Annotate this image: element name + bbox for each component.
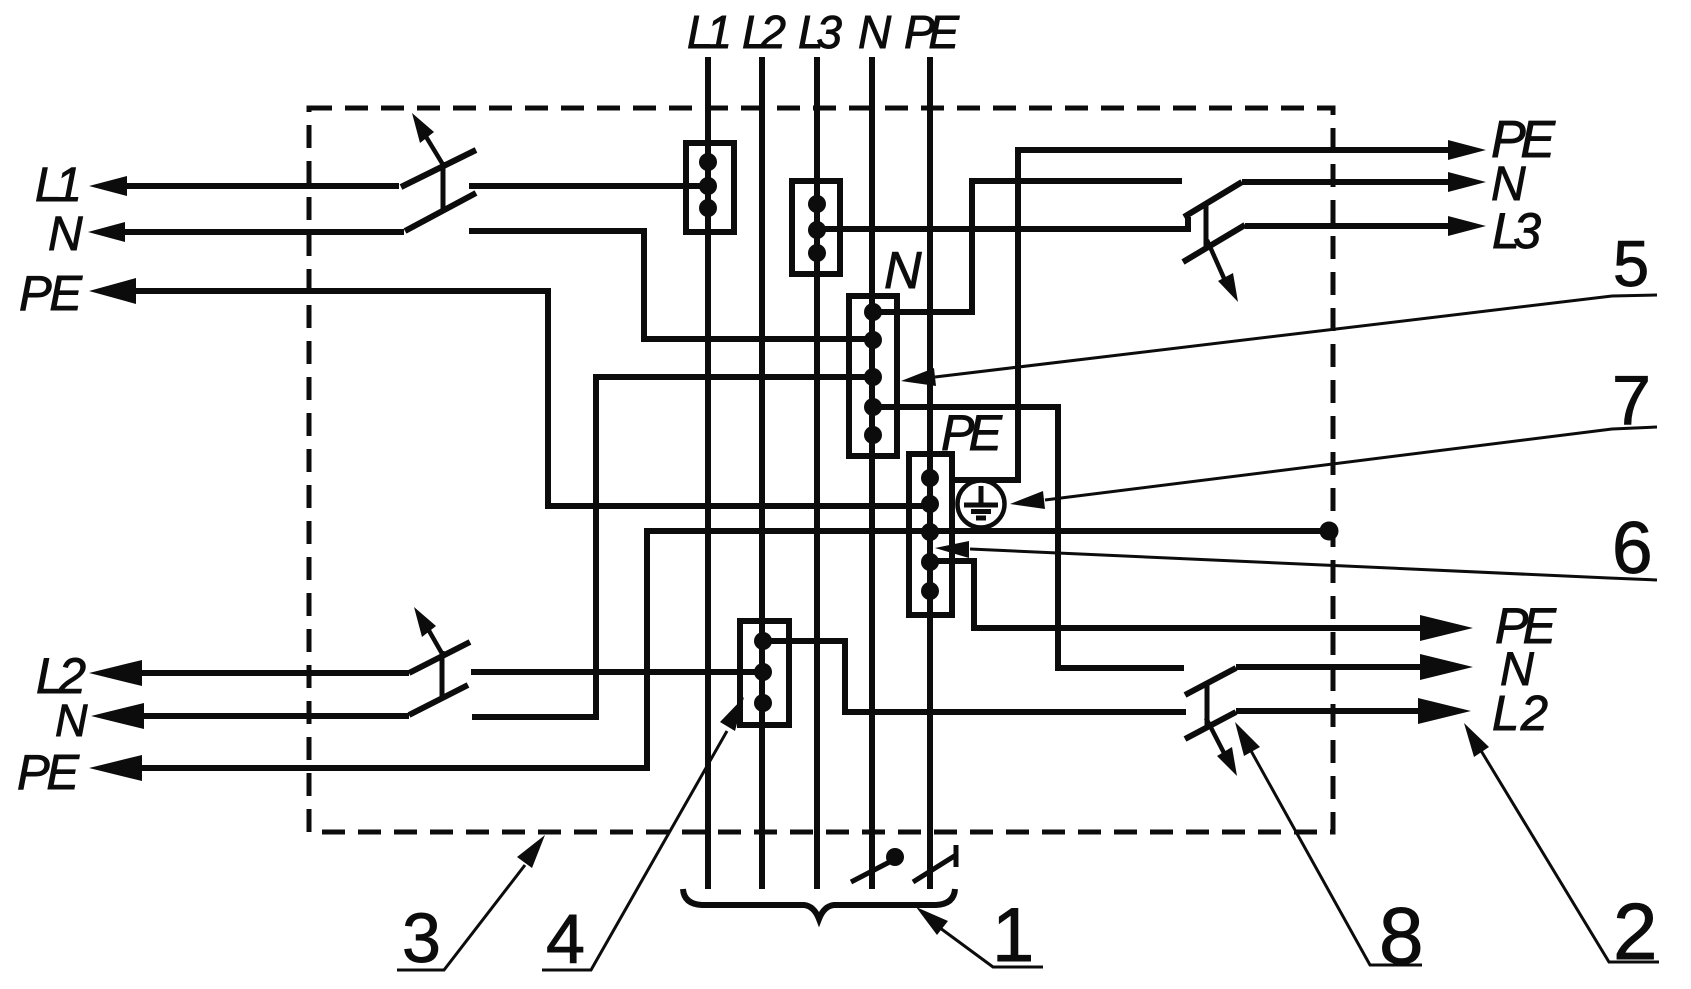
switch Q3 top-right: blade pole L3 bbox=[1183, 225, 1245, 262]
switch Q2 bottom-left: blade pole L2 bbox=[409, 642, 470, 673]
arrowhead L1 output top-left bbox=[89, 176, 127, 196]
ground symbol (item 7) protective earth circle bbox=[958, 481, 1005, 528]
switch Q1 top-left: actuator arrow shaft bbox=[425, 135, 445, 168]
switch Q3 top-right: actuator arrow shaft bbox=[1207, 240, 1227, 285]
leader line item 1 bbox=[936, 925, 1043, 967]
leader arrowhead item 2 bbox=[1464, 723, 1489, 757]
bus line L3 bbox=[814, 57, 820, 889]
wire PE busbar dot4 down to PE output bottom-right bbox=[930, 561, 1427, 628]
leader line item 3 bbox=[397, 865, 525, 970]
switch Q4 bottom-right: mechanical link bbox=[1205, 684, 1210, 728]
leader line item 8 bbox=[1250, 749, 1422, 965]
wire L1 output top-left bbox=[120, 183, 399, 189]
leader arrowhead item 8 bbox=[1235, 722, 1260, 756]
svg-text:N: N bbox=[858, 6, 892, 58]
switch Q1 top-left: blade pole L1 bbox=[401, 150, 476, 187]
svg-text:L1: L1 bbox=[35, 159, 82, 212]
terminal dots on N busbar bbox=[864, 303, 882, 444]
wire PE output bottom-left through PE busbar dot3 to enclosure bonding dot bbox=[135, 531, 1329, 768]
leader arrowhead item 7 bbox=[1010, 491, 1045, 509]
switch Q4 bottom-right: actuator arrow shaft bbox=[1206, 718, 1224, 753]
bus line L1 bbox=[705, 57, 711, 889]
svg-text:PE: PE bbox=[19, 267, 83, 321]
disconnect tick on PE bus slash bbox=[954, 845, 959, 867]
switch Q4 bottom-right: blade pole N bbox=[1185, 668, 1236, 695]
leader line item 4 bbox=[542, 731, 727, 970]
svg-text:N: N bbox=[55, 695, 88, 746]
svg-text:N: N bbox=[48, 208, 83, 261]
terminal block on L1 (fuse/terminal) bbox=[686, 143, 734, 232]
svg-text:PE: PE bbox=[17, 746, 80, 800]
arrowhead PE output bottom-right bbox=[1420, 615, 1473, 641]
terminal block on L2 (item 4) bbox=[740, 621, 789, 725]
leader arrowhead item 3 bbox=[517, 835, 545, 868]
wire N busbar dot4 to bottom-right switch N pole bbox=[873, 407, 1184, 668]
svg-text:3: 3 bbox=[402, 899, 441, 977]
svg-text:L3: L3 bbox=[1492, 203, 1541, 259]
switch Q1 top-left: mechanical link bbox=[441, 162, 446, 211]
wire PE busbar dot1 up to PE output top-right bbox=[952, 150, 1455, 480]
wire L2 output bottom-right bbox=[1236, 708, 1425, 714]
switch Q2 bottom-left: actuator arrow shaft bbox=[428, 629, 444, 657]
leader arrowhead item 6 bbox=[935, 541, 969, 558]
wire N output top-right bbox=[1242, 179, 1455, 185]
disconnect slash on PE bus below enclosure bbox=[913, 855, 956, 882]
terminal dots on L1 block bbox=[699, 153, 717, 217]
wire N busbar dot3 to bottom-left switch N pole bbox=[472, 377, 870, 717]
ground symbol earth strokes bbox=[964, 486, 998, 518]
wire switch Q1 L1 fixed contact to L1 terminal block bbox=[469, 183, 708, 189]
wire switch Q1 N fixed contact to N busbar dot2 bbox=[469, 231, 870, 339]
switch Q4 bottom-right: blade pole L2 bbox=[1185, 712, 1236, 739]
svg-text:1: 1 bbox=[992, 893, 1034, 978]
svg-text:5: 5 bbox=[1613, 227, 1649, 300]
svg-text:N: N bbox=[884, 242, 922, 300]
svg-text:2: 2 bbox=[1613, 887, 1658, 976]
wire L2 block top dot to bottom-right switch L2 pole bbox=[763, 641, 1186, 712]
leader line item 5 bbox=[935, 295, 1657, 377]
arrowhead N output bottom-right bbox=[1420, 654, 1473, 680]
wire N output bottom-left bbox=[137, 713, 409, 719]
svg-text:6: 6 bbox=[1612, 508, 1653, 589]
svg-text:PE: PE bbox=[941, 405, 1003, 461]
terminal dots on L2 block bbox=[754, 632, 772, 712]
switch Q2 bottom-left: mechanical link bbox=[440, 651, 445, 700]
leader arrowhead item 5 bbox=[901, 368, 936, 386]
arrowhead N output bottom-left bbox=[91, 703, 144, 729]
svg-text:4: 4 bbox=[546, 900, 585, 978]
leader line item 2 bbox=[1480, 749, 1659, 962]
svg-text:PE: PE bbox=[904, 6, 960, 58]
arrowhead L2 output bottom-left bbox=[89, 660, 142, 686]
terminal dots on PE busbar bbox=[921, 469, 939, 600]
switch Q3 top-right: mechanical link bbox=[1204, 204, 1209, 249]
arrowhead N output top-right bbox=[1448, 172, 1486, 192]
terminal block on L3 (fuse/terminal) bbox=[792, 181, 840, 274]
wire L3 block middle dot to top-right switch bbox=[817, 217, 1188, 229]
switch Q2 bottom-left: blade pole N bbox=[409, 685, 468, 715]
leader line item 7 bbox=[1045, 427, 1657, 500]
bus line L2 bbox=[759, 57, 765, 889]
svg-text:L3: L3 bbox=[798, 6, 842, 58]
wire L3 output top-right bbox=[1245, 223, 1455, 229]
svg-text:L1: L1 bbox=[687, 6, 732, 58]
switch Q3 top-right: blade pole N bbox=[1184, 182, 1242, 217]
terminal dots on L3 block bbox=[808, 195, 826, 262]
bus line PE bbox=[927, 57, 933, 889]
busbar N terminal block (item 5) bbox=[849, 296, 897, 456]
switch Q3 top-right: actuator arrow bbox=[1218, 273, 1238, 302]
wire N busbar dot1 to top-right switch N pole bbox=[873, 181, 1182, 312]
wire PE output top-left, runs right then down to PE busbar bbox=[128, 291, 927, 506]
leader arrowhead item 1 bbox=[916, 907, 948, 935]
brace grouping incoming cable (item 1) bbox=[683, 889, 955, 919]
leader line item 6 bbox=[970, 549, 1657, 580]
wire N output top-left bbox=[119, 229, 404, 235]
wire switch Q2 L2 fixed contact to L2 terminal block bbox=[471, 669, 760, 675]
svg-text:L2: L2 bbox=[1492, 687, 1548, 741]
arrowhead N output top-left bbox=[88, 222, 125, 242]
disconnect dot on N bus slash bbox=[886, 848, 904, 866]
switch Q1 top-left: blade pole N bbox=[405, 193, 476, 231]
arrowhead PE output top-right bbox=[1448, 140, 1486, 160]
enclosure dashed border (item 3) bbox=[309, 108, 1333, 832]
switch Q2 bottom-left: actuator arrow bbox=[414, 607, 436, 637]
leader arrowhead item 4 bbox=[720, 697, 744, 731]
arrowhead PE output top-left bbox=[89, 278, 136, 304]
svg-text:L2: L2 bbox=[742, 6, 786, 58]
busbar PE terminal block (item 6) bbox=[909, 454, 952, 615]
arrowhead L3 output top-right bbox=[1448, 216, 1486, 236]
switch Q1 top-left: actuator arrow bbox=[412, 113, 434, 143]
svg-text:8: 8 bbox=[1379, 891, 1424, 980]
arrowhead L2 output bottom-right bbox=[1418, 698, 1471, 724]
wire N output bottom-right bbox=[1236, 664, 1427, 670]
junction dot enclosure bonding on dashed border bbox=[1320, 522, 1339, 541]
disconnect slash on N bus below enclosure bbox=[851, 855, 903, 882]
bus line N bbox=[869, 57, 875, 889]
arrowhead PE output bottom-left bbox=[89, 755, 142, 781]
switch Q4 bottom-right: actuator arrow bbox=[1217, 747, 1237, 776]
wire L2 output bottom-left bbox=[135, 670, 409, 676]
svg-text:7: 7 bbox=[1612, 361, 1651, 439]
